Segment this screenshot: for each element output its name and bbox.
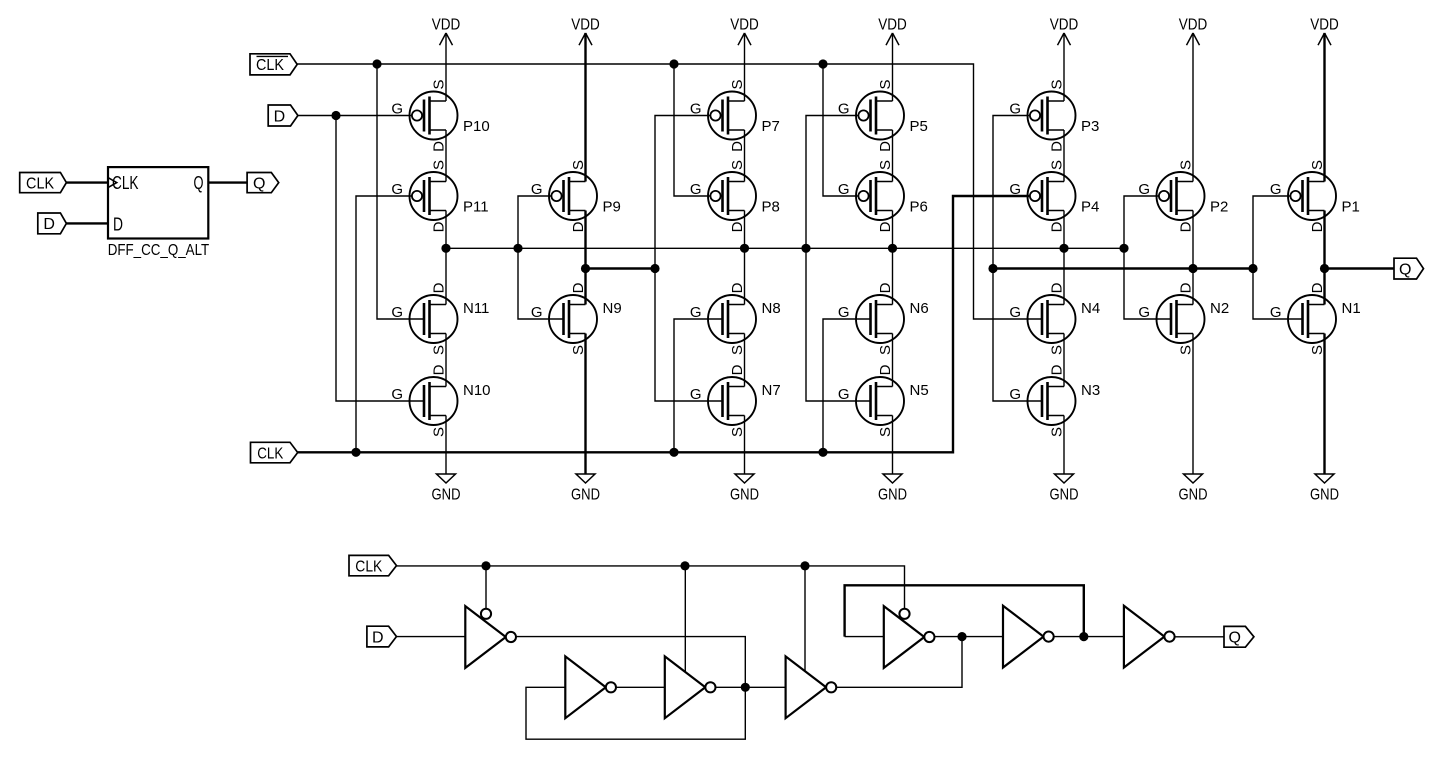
transistor P10 (391, 79, 489, 151)
svg-text:P5: P5 (910, 118, 928, 135)
transistor P5 (838, 79, 928, 151)
wire P8 gate to CLK_B (674, 64, 723, 196)
svg-text:D: D (729, 364, 746, 375)
svg-text:S: S (729, 160, 746, 170)
svg-text:N6: N6 (910, 300, 929, 317)
svg-text:P8: P8 (762, 199, 780, 216)
wire U5 out (935, 636, 1003, 638)
junction (441, 244, 450, 253)
wire N8 gate to CLK (674, 319, 723, 452)
port CLK_B input flag (250, 54, 297, 75)
svg-text:G: G (1009, 386, 1021, 403)
VDD supply (1050, 17, 1079, 46)
wire col3 VDD to P7 (744, 33, 746, 101)
svg-text:G: G (531, 304, 543, 321)
svg-text:P7: P7 (762, 118, 780, 135)
svg-text:N3: N3 (1081, 382, 1100, 399)
op-amp DFF_CC_Q_ALT symbol box (108, 167, 210, 259)
port CLK input flag lower (251, 442, 298, 463)
wire P10 drain to P11 source (445, 130, 447, 182)
wire P1 drain to N1 drain (1323, 211, 1325, 305)
wire N7 source to GND (744, 416, 746, 475)
svg-text:P10: P10 (463, 118, 490, 135)
junction (741, 683, 750, 692)
transistor P8 (690, 160, 780, 232)
port Q flag bottom (1224, 626, 1254, 647)
wire N1 source to GND (1323, 334, 1325, 475)
svg-text:D: D (372, 629, 384, 646)
svg-text:D: D (877, 282, 894, 293)
wire P11 gate to CLK (356, 196, 424, 452)
svg-text:CLK: CLK (257, 445, 283, 462)
wire N10 source to GND (445, 416, 447, 475)
svg-text:Q: Q (1399, 261, 1411, 278)
junction (1059, 244, 1068, 253)
svg-text:S: S (877, 427, 894, 437)
transistor N11 (391, 282, 489, 355)
transistor N8 (690, 282, 781, 355)
port Q flag at DFF (247, 173, 279, 193)
junction (888, 244, 897, 253)
junction (1248, 264, 1257, 273)
port CLK flag at DFF (20, 173, 67, 193)
wire U4 out (836, 637, 962, 688)
svg-text:S: S (1309, 160, 1326, 170)
wire N11 gate to CLK_B (377, 64, 424, 319)
wire N3 source to GND (1063, 416, 1065, 475)
transistor P11 (391, 160, 488, 232)
VDD supply (571, 17, 600, 46)
svg-text:D: D (729, 282, 746, 293)
junction (650, 264, 659, 273)
svg-text:CLK: CLK (26, 175, 54, 192)
svg-text:VDD: VDD (730, 17, 759, 34)
junction (818, 59, 827, 68)
wire N11 source to N10 drain (445, 334, 447, 387)
wire P3 N3 gates (993, 116, 1042, 402)
wire CLK bottom bus (397, 566, 905, 609)
svg-text:G: G (1270, 181, 1282, 198)
port Q output flag (1394, 258, 1424, 279)
svg-text:Q: Q (1228, 630, 1240, 647)
wire P8 drain to N8 drain (744, 211, 746, 305)
svg-text:S: S (431, 79, 448, 89)
ground (432, 474, 461, 504)
svg-text:G: G (531, 181, 543, 198)
svg-text:S: S (431, 427, 448, 437)
wire U6 out (1054, 636, 1124, 638)
inverter U5 (884, 606, 935, 668)
port D input flag (268, 105, 298, 126)
transistor P4 (1009, 160, 1099, 232)
svg-text:N1: N1 (1342, 300, 1361, 317)
svg-text:S: S (729, 345, 746, 355)
svg-text:GND: GND (1050, 487, 1079, 504)
wire Q output (1325, 267, 1395, 269)
svg-text:D: D (570, 221, 587, 232)
junction (669, 448, 678, 457)
svg-text:Q: Q (253, 175, 265, 192)
svg-text:D: D (877, 141, 894, 152)
svg-text:S: S (1178, 160, 1195, 170)
wire CLK to DFF (66, 181, 108, 183)
svg-text:G: G (1138, 304, 1150, 321)
svg-text:D: D (729, 141, 746, 152)
svg-text:P2: P2 (1210, 199, 1228, 216)
ground (1050, 474, 1079, 504)
svg-text:D: D (1309, 221, 1326, 232)
svg-text:DFF_CC_Q_ALT: DFF_CC_Q_ALT (108, 242, 210, 259)
inverter U1 (465, 606, 516, 668)
svg-text:S: S (570, 345, 587, 355)
svg-text:N4: N4 (1081, 300, 1100, 317)
svg-text:CLK: CLK (256, 57, 284, 74)
svg-text:G: G (690, 101, 702, 118)
svg-text:D: D (1178, 282, 1195, 293)
wire U7 out to Q (1175, 636, 1224, 638)
transistor N7 (690, 364, 781, 437)
svg-text:G: G (690, 181, 702, 198)
wire N2 source to GND (1192, 334, 1194, 475)
svg-text:N9: N9 (603, 300, 622, 317)
transistor N3 (1009, 364, 1100, 437)
port D flag at DFF (38, 213, 67, 234)
svg-text:P1: P1 (1342, 199, 1360, 216)
wire P7 N7 gates (655, 116, 723, 402)
transistor N1 (1270, 282, 1361, 355)
wire N4 source to N3 drain (1063, 334, 1065, 387)
port D flag bottom (367, 626, 397, 647)
wire D to U1 (397, 636, 466, 638)
svg-text:P11: P11 (463, 199, 489, 216)
transistor P7 (690, 79, 780, 151)
inverter U4 (786, 656, 837, 718)
svg-text:N5: N5 (910, 382, 929, 399)
transistor P1 (1270, 160, 1360, 232)
wire node Qint bus (993, 267, 1253, 269)
transistor P6 (838, 160, 928, 232)
junction (818, 448, 827, 457)
wire P9 drain to N9 drain (584, 211, 586, 305)
wire P2 N2 gates (1124, 196, 1171, 319)
svg-text:G: G (391, 386, 403, 403)
svg-text:VDD: VDD (1050, 17, 1079, 34)
wire col4 VDD to P5 (892, 33, 894, 101)
svg-text:G: G (1009, 304, 1021, 321)
wire D branch to N10 gate (336, 116, 424, 402)
transistor P9 (531, 160, 621, 232)
svg-text:P9: P9 (603, 199, 621, 216)
svg-text:G: G (838, 386, 850, 403)
svg-text:G: G (690, 304, 702, 321)
junction (1188, 264, 1197, 273)
junction (801, 244, 810, 253)
svg-text:D: D (431, 141, 448, 152)
junction (740, 244, 749, 253)
svg-text:N8: N8 (762, 300, 781, 317)
VDD supply (878, 17, 907, 46)
svg-text:VDD: VDD (571, 17, 600, 34)
svg-text:CLK: CLK (112, 173, 139, 193)
svg-text:N11: N11 (463, 300, 489, 317)
svg-text:S: S (1309, 345, 1326, 355)
wire D to DFF (66, 222, 108, 224)
ground (571, 474, 600, 504)
svg-text:G: G (1270, 304, 1282, 321)
svg-text:D: D (729, 221, 746, 232)
wire P5 drain to P6 source (892, 130, 894, 182)
inverter U3 (665, 656, 716, 718)
svg-text:VDD: VDD (878, 17, 907, 34)
junction (669, 59, 678, 68)
wire N8 source to N7 drain (744, 334, 746, 387)
junction (481, 561, 490, 570)
wire clk to U1 bubble (485, 566, 487, 609)
wire N6 source to N5 drain (892, 334, 894, 387)
svg-text:S: S (877, 160, 894, 170)
svg-text:VDD: VDD (1179, 17, 1208, 34)
svg-text:P3: P3 (1081, 118, 1099, 135)
svg-text:G: G (1009, 181, 1021, 198)
svg-text:S: S (431, 160, 448, 170)
transistor N2 (1138, 282, 1229, 355)
wire N9 source to GND (584, 334, 586, 475)
wire CLK bus to P4 gate (298, 196, 1042, 452)
junction (1119, 244, 1128, 253)
junction (331, 111, 340, 120)
svg-text:D: D (43, 216, 55, 233)
wire slave feedback (845, 585, 1084, 636)
ground (878, 474, 907, 504)
wire node A bus (446, 247, 1124, 249)
wire U3 out (716, 686, 786, 688)
svg-text:GND: GND (730, 487, 759, 504)
svg-text:D: D (877, 364, 894, 375)
inverter U6 (1003, 606, 1054, 668)
svg-text:VDD: VDD (1310, 17, 1339, 34)
transistor N10 (391, 364, 490, 437)
svg-text:D: D (1049, 141, 1066, 152)
svg-text:GND: GND (432, 487, 461, 504)
svg-text:S: S (570, 160, 587, 170)
svg-text:S: S (877, 79, 894, 89)
junction (800, 561, 809, 570)
transistor P2 (1138, 160, 1228, 232)
svg-text:G: G (1009, 101, 1021, 118)
port CLK flag bottom (349, 555, 397, 575)
wire P9 N9 gates (518, 196, 564, 319)
svg-text:S: S (729, 79, 746, 89)
wire clk to U3 (684, 566, 686, 672)
wire CLK_B bus to N4 gate (297, 64, 1042, 319)
svg-text:D: D (1049, 221, 1066, 232)
wire U5 in (845, 636, 884, 638)
VDD supply (730, 17, 759, 46)
wire N6 gate to CLK (823, 319, 871, 452)
wire col2 VDD to P9 (584, 33, 586, 182)
wire P2 drain to N2 drain (1192, 211, 1194, 305)
svg-text:G: G (690, 386, 702, 403)
junction (1320, 264, 1329, 273)
svg-text:N10: N10 (463, 382, 491, 399)
ground (1179, 474, 1208, 504)
wire P3 drain to P4 source (1063, 130, 1065, 182)
svg-text:N7: N7 (762, 382, 781, 399)
ground (730, 474, 759, 504)
svg-text:D: D (1178, 221, 1195, 232)
svg-text:D: D (431, 282, 448, 293)
wire col6 VDD to P2 (1192, 33, 1194, 182)
wire N5 source to GND (892, 416, 894, 475)
svg-text:GND: GND (878, 487, 907, 504)
svg-text:D: D (877, 221, 894, 232)
svg-text:CLK: CLK (355, 558, 382, 575)
transistor N6 (838, 282, 929, 355)
wire clk to U4 (804, 566, 806, 672)
wire P11 drain to N11 drain (445, 211, 447, 305)
inverter U2 (565, 656, 616, 718)
VDD supply (1310, 17, 1339, 46)
svg-text:S: S (1049, 427, 1066, 437)
wire P4 drain to N4 drain (1063, 211, 1065, 305)
svg-text:D: D (1049, 282, 1066, 293)
svg-text:VDD: VDD (432, 17, 461, 34)
svg-text:S: S (1049, 160, 1066, 170)
svg-text:G: G (838, 181, 850, 198)
svg-text:GND: GND (1310, 487, 1339, 504)
svg-text:G: G (391, 304, 403, 321)
svg-text:S: S (877, 345, 894, 355)
svg-text:S: S (1049, 345, 1066, 355)
VDD supply (432, 17, 461, 46)
transistor N4 (1009, 282, 1100, 355)
svg-text:G: G (838, 101, 850, 118)
svg-text:S: S (1178, 345, 1195, 355)
svg-text:G: G (391, 181, 403, 198)
wire DFF Q out (208, 181, 247, 183)
wire U1 out / keeper loop (516, 637, 745, 740)
svg-text:N2: N2 (1210, 300, 1229, 317)
transistor P3 (1009, 79, 1099, 151)
svg-text:D: D (570, 282, 587, 293)
wire D to P10 gate (298, 115, 424, 117)
svg-text:G: G (391, 101, 403, 118)
junction (351, 448, 360, 457)
wire col1 VDD to P10 (445, 33, 447, 101)
wire U2 out (616, 686, 665, 688)
svg-text:D: D (1309, 282, 1326, 293)
junction (1079, 632, 1088, 641)
ground (1310, 474, 1339, 504)
junction (957, 632, 966, 641)
wire P6 gate to CLK_B (823, 64, 871, 196)
svg-text:S: S (1049, 79, 1066, 89)
svg-text:D: D (431, 364, 448, 375)
transistor N5 (838, 364, 929, 437)
svg-text:G: G (1138, 181, 1150, 198)
svg-text:S: S (431, 345, 448, 355)
wire P6 drain to N6 drain (892, 211, 894, 305)
svg-text:D: D (1049, 364, 1066, 375)
svg-text:GND: GND (1179, 487, 1208, 504)
junction (988, 264, 997, 273)
wire col7 VDD to P1 (1323, 33, 1325, 182)
inverter U7 (1124, 606, 1175, 668)
svg-text:D: D (274, 108, 286, 125)
wire P5 N5 gates (806, 116, 871, 402)
svg-text:P6: P6 (910, 199, 928, 216)
wire master keeper jog (586, 267, 656, 269)
junction (680, 561, 689, 570)
junction (513, 244, 522, 253)
svg-text:D: D (431, 221, 448, 232)
svg-text:D: D (113, 215, 123, 235)
svg-text:G: G (838, 304, 850, 321)
VDD supply (1179, 17, 1208, 46)
svg-text:P4: P4 (1081, 199, 1099, 216)
wire col5 VDD to P3 (1063, 33, 1065, 101)
svg-text:S: S (729, 427, 746, 437)
transistor N9 (531, 282, 622, 355)
junction (372, 59, 381, 68)
svg-text:GND: GND (571, 487, 600, 504)
wire P7 drain to P8 source (744, 130, 746, 182)
wire P1 N1 gates (1253, 196, 1303, 319)
junction (581, 264, 590, 273)
svg-text:Q: Q (194, 173, 204, 193)
